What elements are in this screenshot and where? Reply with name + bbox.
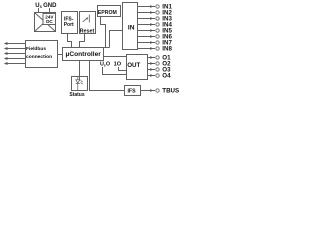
- svg-text:TBUS: TBUS: [162, 88, 179, 95]
- svg-text:EPROM: EPROM: [98, 10, 117, 16]
- svg-text:connection: connection: [26, 54, 52, 60]
- svg-text:Reset: Reset: [80, 28, 95, 34]
- svg-text:Fieldbus: Fieldbus: [26, 46, 46, 52]
- svg-text:1O: 1O: [114, 61, 122, 67]
- svg-text:Port: Port: [64, 22, 74, 28]
- svg-text:O: O: [106, 61, 110, 67]
- svg-text:µController: µController: [66, 51, 102, 58]
- svg-text:IN: IN: [128, 24, 135, 31]
- svg-text:Status: Status: [69, 92, 85, 98]
- svg-text:IFS: IFS: [127, 88, 136, 94]
- svg-text:DC: DC: [46, 19, 53, 24]
- svg-text:GND: GND: [43, 3, 57, 9]
- svg-text:O4: O4: [162, 73, 171, 80]
- svg-text:IN8: IN8: [162, 46, 172, 53]
- svg-text:OUT: OUT: [127, 62, 140, 69]
